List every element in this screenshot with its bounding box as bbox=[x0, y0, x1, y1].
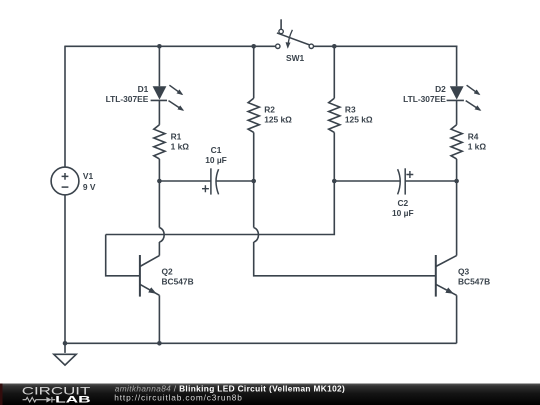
svg-text:V1: V1 bbox=[83, 171, 94, 181]
svg-text:R4: R4 bbox=[468, 132, 479, 142]
svg-text:Q3: Q3 bbox=[458, 267, 470, 277]
svg-text:LAB: LAB bbox=[55, 395, 91, 405]
svg-text:1 kΩ: 1 kΩ bbox=[171, 142, 190, 152]
svg-text:125 kΩ: 125 kΩ bbox=[345, 114, 373, 124]
svg-text:Q2: Q2 bbox=[162, 267, 174, 277]
svg-text:C1: C1 bbox=[211, 145, 222, 155]
svg-text:1 kΩ: 1 kΩ bbox=[468, 142, 487, 152]
svg-text:BC547B: BC547B bbox=[162, 277, 194, 287]
svg-text:LTL-307EE: LTL-307EE bbox=[106, 94, 149, 104]
svg-text:C2: C2 bbox=[397, 198, 408, 208]
svg-text:D2: D2 bbox=[435, 84, 446, 94]
svg-text:D1: D1 bbox=[138, 84, 149, 94]
svg-text:R3: R3 bbox=[345, 104, 356, 114]
svg-text:10 µF: 10 µF bbox=[392, 208, 414, 218]
svg-text:SW1: SW1 bbox=[286, 53, 304, 63]
svg-text:9 V: 9 V bbox=[83, 182, 96, 192]
svg-text:125 kΩ: 125 kΩ bbox=[264, 114, 292, 124]
svg-text:BC547B: BC547B bbox=[458, 277, 490, 287]
svg-text:LTL-307EE: LTL-307EE bbox=[403, 94, 446, 104]
svg-text:R1: R1 bbox=[171, 132, 182, 142]
svg-text:http://circuitlab.com/c3run8b: http://circuitlab.com/c3run8b bbox=[114, 393, 242, 403]
svg-text:10 µF: 10 µF bbox=[205, 155, 227, 165]
svg-text:R2: R2 bbox=[264, 104, 275, 114]
